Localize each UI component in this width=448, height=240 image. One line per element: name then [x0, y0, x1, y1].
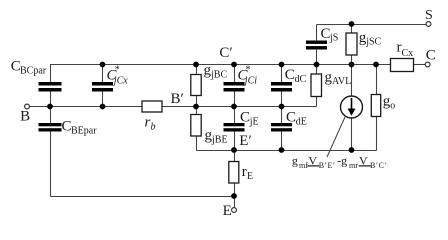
svg-text:jE: jE: [249, 116, 259, 127]
svg-text:jCx: jCx: [112, 75, 128, 86]
svg-text:BEpar: BEpar: [71, 125, 97, 136]
svg-text:C: C: [285, 67, 295, 83]
svg-text:AVL: AVL: [332, 76, 351, 87]
svg-text:jCi: jCi: [243, 75, 257, 86]
svg-text:o: o: [390, 100, 395, 111]
svg-text:S: S: [425, 8, 433, 23]
svg-text:C: C: [426, 47, 436, 63]
svg-text:*: *: [115, 65, 120, 76]
svg-text:Cx: Cx: [402, 48, 414, 59]
svg-text:mf: mf: [299, 161, 308, 170]
svg-text:-g: -g: [337, 154, 347, 168]
svg-text:dE: dE: [296, 116, 307, 127]
svg-text:jBC: jBC: [210, 69, 227, 80]
svg-text:jSC: jSC: [365, 37, 381, 48]
svg-text:E′: E′: [239, 133, 251, 149]
svg-text:B: B: [20, 108, 30, 124]
svg-text:dC: dC: [295, 74, 307, 85]
svg-text:jBE: jBE: [211, 134, 228, 145]
svg-text:C: C: [62, 119, 72, 135]
svg-text:mr: mr: [349, 161, 358, 170]
svg-text:jS: jS: [329, 33, 338, 44]
svg-text:E: E: [223, 203, 232, 219]
svg-text:C: C: [321, 26, 331, 42]
svg-text:g: g: [292, 154, 298, 168]
svg-text:b: b: [151, 121, 156, 132]
svg-text:E: E: [247, 171, 253, 182]
svg-text:B′E′: B′E′: [319, 161, 336, 170]
svg-text:BCpar: BCpar: [20, 65, 47, 76]
svg-text:r: r: [242, 164, 247, 180]
svg-text:C′: C′: [219, 45, 232, 61]
svg-text:B′C′: B′C′: [370, 161, 387, 170]
svg-text:B′: B′: [171, 91, 184, 107]
svg-text:C: C: [286, 110, 296, 126]
svg-text:*: *: [246, 65, 251, 76]
svg-text:C: C: [240, 110, 250, 126]
